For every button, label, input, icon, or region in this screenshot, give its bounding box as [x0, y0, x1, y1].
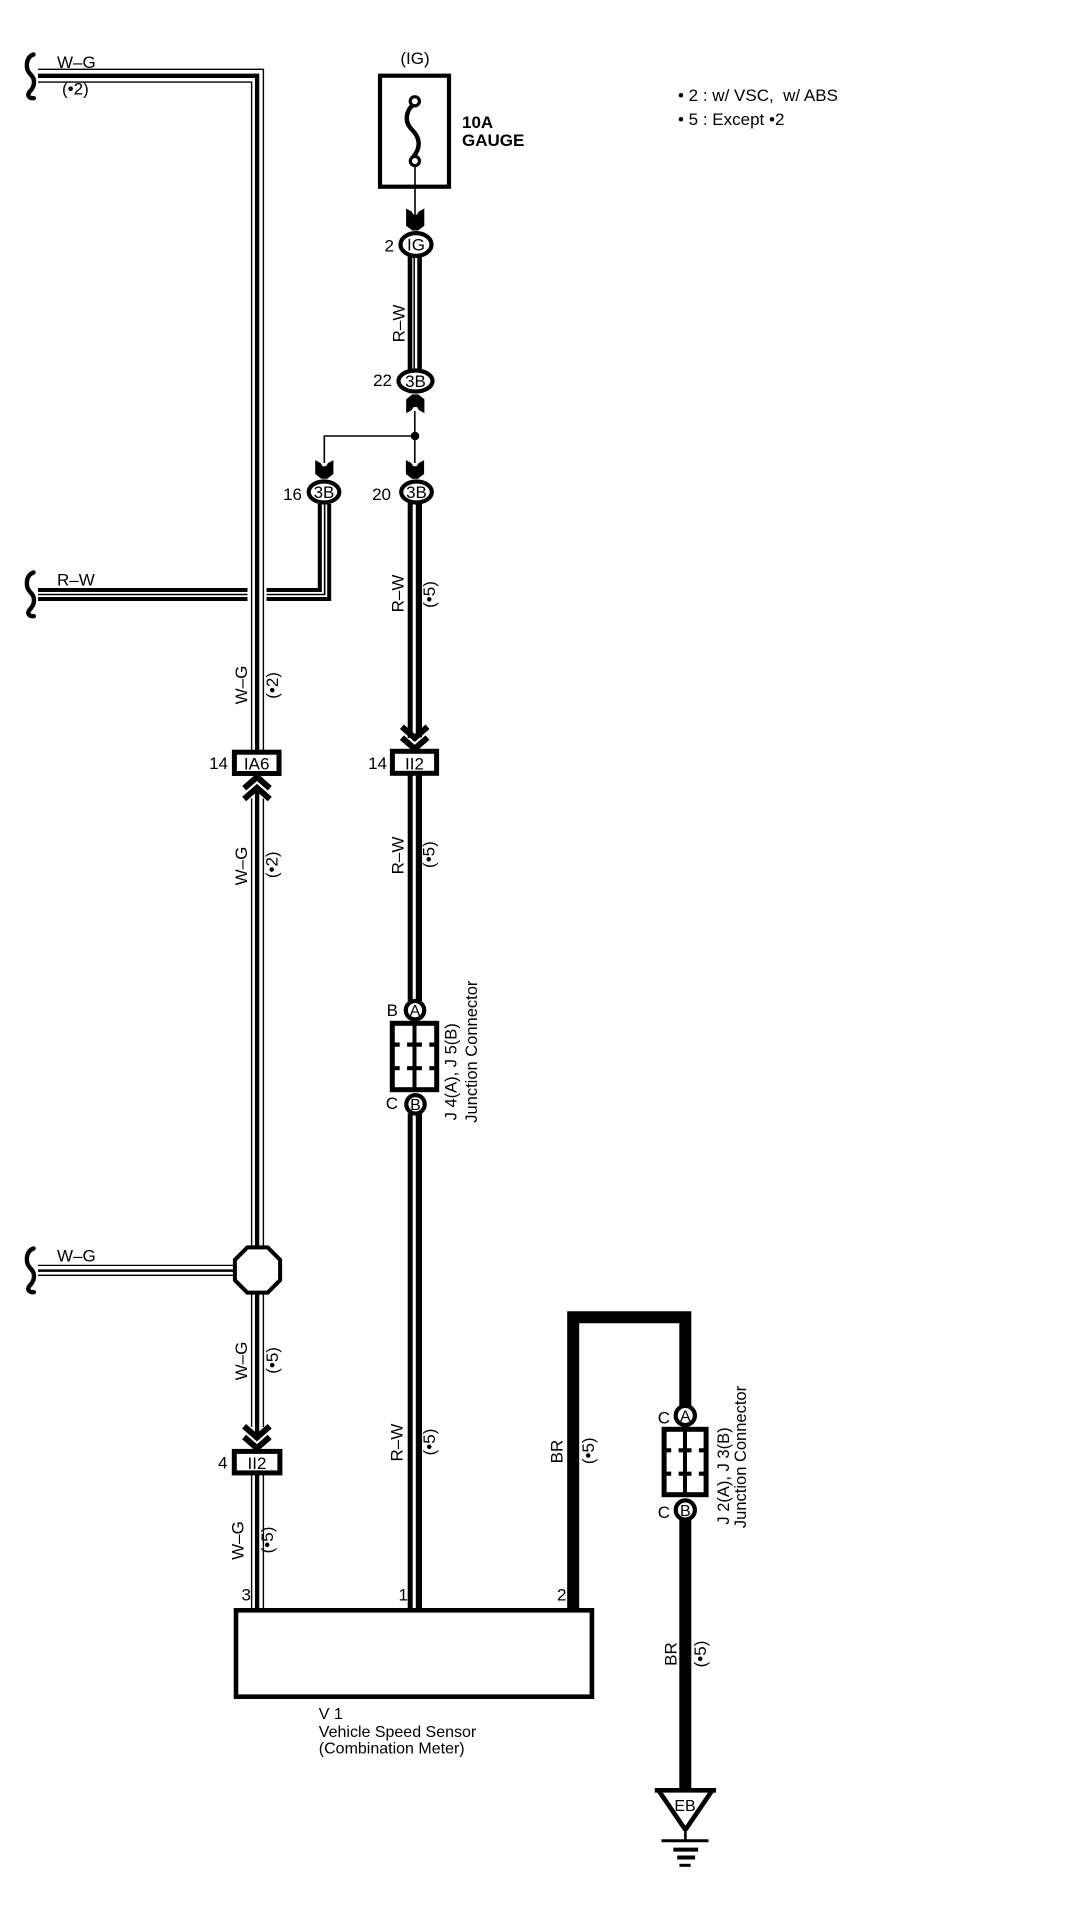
- svg-text:(•2): (•2): [62, 80, 89, 99]
- svg-text:(•5): (•5): [263, 1347, 282, 1374]
- fuse 10A GAUGE: [380, 76, 449, 187]
- svg-text:W–G: W–G: [232, 666, 251, 705]
- svg-text:2: 2: [557, 1586, 566, 1605]
- break symbol W-G left edge: [27, 1249, 34, 1293]
- svg-text:10A: 10A: [462, 113, 493, 132]
- wire R-W (dot 5) from II2 to junction connector A: [410, 775, 419, 1001]
- svg-text:3B: 3B: [314, 483, 335, 502]
- svg-text:EB: EB: [674, 1798, 695, 1815]
- svg-text:(•5): (•5): [579, 1437, 598, 1464]
- svg-text:R–W: R–W: [389, 837, 408, 875]
- junction connector J4(A) J5(B) box: [392, 1023, 437, 1090]
- svg-text:R–W: R–W: [57, 571, 95, 590]
- svg-text:3: 3: [242, 1586, 251, 1605]
- connector II2 pin 14: [368, 751, 437, 773]
- svg-text:Vehicle Speed Sensor: Vehicle Speed Sensor: [319, 1724, 477, 1741]
- svg-text:3B: 3B: [406, 483, 427, 502]
- svg-text:• 5 : Except •2: • 5 : Except •2: [678, 110, 784, 129]
- junction connector J2(A) J3(B) box: [664, 1429, 706, 1495]
- svg-text:R–W: R–W: [389, 575, 408, 613]
- svg-text:(•5): (•5): [420, 841, 439, 868]
- wire R-W (dot 5) from 3B pin 20 down to II2: [410, 503, 419, 738]
- svg-text:Junction Connector: Junction Connector: [463, 980, 481, 1123]
- wire W-G (dot 5) octagon to II2: [252, 1293, 264, 1440]
- svg-text:(Combination Meter): (Combination Meter): [319, 1741, 465, 1758]
- arrow into 3B pin 16: [315, 460, 333, 479]
- svg-text:A: A: [410, 1003, 421, 1020]
- svg-text:W–G: W–G: [57, 1247, 96, 1266]
- terminal A of J2 J3: [658, 1406, 695, 1428]
- arrow into 3B pin 20: [406, 460, 424, 479]
- svg-text:(•5): (•5): [691, 1641, 710, 1668]
- svg-text:(•5): (•5): [420, 1429, 439, 1456]
- arrow up into 3B pin 22: [406, 394, 424, 413]
- svg-text:2: 2: [385, 237, 394, 256]
- terminal A of J4 J5: [387, 1001, 425, 1020]
- connector oval 3B pin 16: [283, 482, 339, 505]
- svg-text:IG: IG: [407, 236, 425, 255]
- wire fuse to connector IG: [414, 166, 416, 222]
- svg-text:W–G: W–G: [57, 53, 96, 72]
- svg-text:J 4(A), J 5(B): J 4(A), J 5(B): [443, 1023, 461, 1120]
- svg-text:4: 4: [218, 1454, 227, 1473]
- svg-text:(IG): (IG): [400, 49, 429, 68]
- svg-text:20: 20: [372, 485, 391, 504]
- svg-text:A: A: [680, 1408, 691, 1425]
- svg-text:B: B: [387, 1001, 398, 1020]
- svg-text:C: C: [386, 1094, 398, 1113]
- wire W-G left run IA6 to octagon: [252, 790, 264, 1247]
- connector II2 pin 4: [218, 1451, 280, 1473]
- connector oval 3B pin 20: [372, 482, 432, 505]
- svg-text:II2: II2: [248, 1454, 267, 1473]
- svg-text:C: C: [658, 1503, 670, 1522]
- connector IA6 pin 14: [209, 752, 279, 773]
- connector oval 3B pin 22: [373, 371, 432, 392]
- svg-text:(•2): (•2): [263, 672, 282, 699]
- svg-text:W–G: W–G: [229, 1521, 248, 1560]
- svg-text:GAUGE: GAUGE: [462, 131, 524, 150]
- svg-text:W–G: W–G: [232, 1342, 251, 1381]
- wire W-G (dot 2) top-left horizontal and left vertical run: [248, 585, 267, 605]
- svg-text:• 2 : w/ VSC, w/ ABS: • 2 : w/ VSC, w/ ABS: [678, 86, 838, 105]
- wire W-G (dot 5) II2 to vehicle speed sensor pin 3: [252, 1473, 264, 1610]
- svg-text:R–W: R–W: [388, 1424, 407, 1462]
- terminal B of J2 J3: [658, 1500, 695, 1522]
- wire BR (dot 5) from J2 J3 terminal B down to ground: [679, 1520, 691, 1788]
- svg-text:BR: BR: [662, 1642, 681, 1666]
- svg-text:B: B: [680, 1503, 691, 1520]
- svg-text:16: 16: [283, 485, 302, 504]
- wire R-W from IG to 3B: [410, 256, 420, 370]
- break symbol R-W left edge: [27, 573, 34, 617]
- svg-text:14: 14: [209, 754, 228, 773]
- wire BR (dot 5) from pin 2 up over to J2 J3 terminal A: [573, 1317, 685, 1608]
- svg-text:IA6: IA6: [244, 755, 270, 774]
- node junction dot: [411, 432, 420, 441]
- svg-text:Junction Connector: Junction Connector: [732, 1385, 750, 1528]
- component V1 vehicle speed sensor box: [236, 1610, 592, 1696]
- svg-text:C: C: [658, 1408, 670, 1427]
- arrow double chevron into II2 left: [244, 1426, 270, 1448]
- arrow double chevron into II2 mid: [402, 727, 428, 749]
- wire R-W horizontal from left edge to 3B-16 branch: [38, 504, 329, 599]
- arrow into connector IG: [406, 209, 424, 231]
- terminal B of J4 J5: [386, 1094, 425, 1114]
- node octagon junction: [235, 1247, 280, 1292]
- wire 3B to junction node: [414, 411, 416, 436]
- arrow double chevron out of IA6: [244, 777, 270, 799]
- svg-text:1: 1: [399, 1586, 408, 1605]
- svg-text:3B: 3B: [405, 372, 426, 391]
- svg-text:II2: II2: [405, 755, 424, 774]
- wire branch to 3B pins 16 and 20: [324, 436, 415, 463]
- wire R-W (dot 5) from junction connector B down to vehicle speed sensor pin 1: [410, 1114, 419, 1611]
- break symbol W-G top-left: [27, 55, 34, 99]
- ground EB: [655, 1790, 716, 1865]
- svg-text:(•5): (•5): [258, 1527, 277, 1554]
- wire W-G horizontal from left edge to octagon: [38, 1265, 236, 1275]
- svg-text:V 1: V 1: [319, 1706, 343, 1723]
- svg-text:BR: BR: [548, 1440, 567, 1464]
- svg-text:W–G: W–G: [232, 847, 251, 886]
- svg-text:B: B: [410, 1097, 421, 1114]
- svg-text:14: 14: [368, 754, 387, 773]
- connector oval IG pin 2: [385, 233, 432, 256]
- svg-text:J 2(A), J 3(B): J 2(A), J 3(B): [715, 1427, 733, 1524]
- svg-text:(•2): (•2): [263, 851, 282, 878]
- svg-text:R–W: R–W: [390, 305, 409, 343]
- svg-text:(•5): (•5): [420, 581, 439, 608]
- svg-text:22: 22: [373, 371, 392, 390]
